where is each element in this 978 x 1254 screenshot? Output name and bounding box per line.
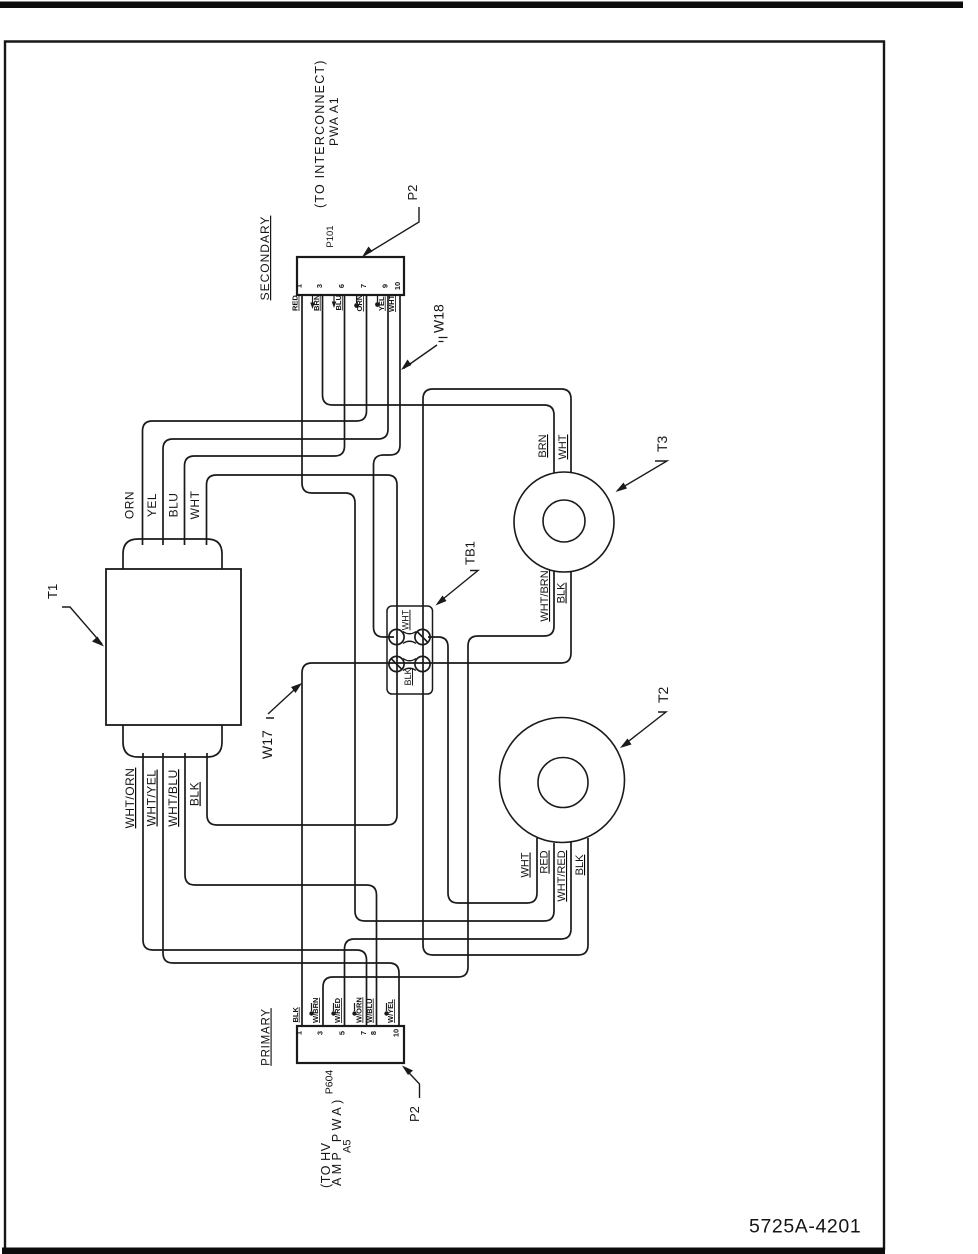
svg-text:BLK: BLK xyxy=(188,782,202,806)
svg-text:W/RED: W/RED xyxy=(333,997,342,1023)
svg-text:7: 7 xyxy=(359,1031,368,1035)
transformer T1 body xyxy=(106,569,241,725)
wire T1 WHT/YEL to P604-10 xyxy=(163,753,399,1026)
TB1 screw terminals xyxy=(389,629,430,671)
svg-text:(TO INTERCONNECT): (TO INTERCONNECT) xyxy=(313,59,327,208)
svg-text:ORN: ORN xyxy=(123,491,137,519)
svg-text:BLK: BLK xyxy=(556,582,568,603)
svg-text:RED: RED xyxy=(539,850,551,873)
svg-text:5725A-4201: 5725A-4201 xyxy=(749,1216,861,1238)
svg-text:BLK: BLK xyxy=(403,668,413,685)
TB1 screw labels xyxy=(401,609,414,685)
svg-text:W/BRN: W/BRN xyxy=(311,998,320,1023)
svg-text:T3: T3 xyxy=(654,435,670,452)
toroid T3 xyxy=(514,472,614,572)
svg-text:A5: A5 xyxy=(342,1140,354,1153)
connector P604 body (primary) xyxy=(297,1026,404,1063)
svg-text:6: 6 xyxy=(337,284,346,288)
svg-text:T1: T1 xyxy=(45,584,60,599)
wire P101-7 ORN to T1 ORN xyxy=(143,295,367,545)
svg-text:WHT/BRN: WHT/BRN xyxy=(539,570,551,621)
svg-text:3: 3 xyxy=(315,284,324,288)
wire P101-9 YEL to T1 YEL xyxy=(163,295,388,545)
P101 splice dot pin7 xyxy=(356,296,358,303)
P101 splice dot pin9 xyxy=(377,296,379,302)
svg-text:TB1: TB1 xyxy=(463,541,478,565)
svg-text:10: 10 xyxy=(392,1029,401,1037)
svg-text:3: 3 xyxy=(316,1031,325,1035)
svg-text:BLK: BLK xyxy=(291,1007,300,1023)
svg-text:WHT/BLU: WHT/BLU xyxy=(166,769,180,827)
svg-text:PRIMARY: PRIMARY xyxy=(261,1008,273,1066)
wire T2 WHT/RED to P604-5 xyxy=(345,842,572,1026)
T1 top lead labels xyxy=(123,490,203,519)
wire T1 WHT through TB1 left screws to T1 BLK xyxy=(207,475,398,825)
svg-text:10: 10 xyxy=(393,282,402,290)
wire P101-1 RED to T2 RED xyxy=(302,295,554,921)
svg-text:9: 9 xyxy=(381,284,390,288)
P604 pin numbers xyxy=(295,1029,401,1037)
svg-text:P2: P2 xyxy=(405,185,420,201)
P604 splice dot pin7 xyxy=(354,1003,356,1011)
T2 lead labels xyxy=(520,850,587,901)
wire T3 BLK through TB1 lower screws, W17 run to P604-1 xyxy=(302,570,571,1026)
svg-text:P101: P101 xyxy=(325,225,336,247)
svg-text:SECONDARY: SECONDARY xyxy=(258,216,272,301)
connector P101 body (secondary) xyxy=(297,257,404,295)
terminal block TB1 body xyxy=(387,606,433,694)
wire T3 WHT/BRN to P604-3 xyxy=(323,570,554,1026)
wire P101-10 WHT to TB1 upper-left screw xyxy=(374,295,401,637)
svg-text:BLU: BLU xyxy=(167,493,181,518)
TB1 jumper bone bottom pair xyxy=(403,659,416,671)
P101 pin numbers xyxy=(295,282,402,290)
svg-text:8: 8 xyxy=(369,1031,378,1035)
svg-text:W17: W17 xyxy=(259,730,275,759)
P101 splice arrow pin6 xyxy=(333,296,335,303)
svg-text:WHT/RED: WHT/RED xyxy=(556,850,568,901)
wire P101-6 BLU to T1 BLU xyxy=(185,295,345,545)
svg-text:1: 1 xyxy=(295,1031,304,1035)
svg-text:7: 7 xyxy=(359,284,368,288)
svg-text:5: 5 xyxy=(338,1031,347,1035)
bottom edge bar xyxy=(2,1248,885,1254)
TB1 jumper bone top pair xyxy=(403,632,416,644)
svg-text:WHT/YEL: WHT/YEL xyxy=(145,770,159,827)
svg-text:W/ORN: W/ORN xyxy=(355,997,364,1023)
T3 lead labels xyxy=(537,434,569,621)
P604 wire colour labels xyxy=(291,997,395,1023)
svg-text:T2: T2 xyxy=(655,686,671,703)
svg-text:PWA A1: PWA A1 xyxy=(327,96,341,146)
svg-text:W/YEL: W/YEL xyxy=(386,999,395,1023)
svg-text:RED: RED xyxy=(291,295,300,311)
top edge bar xyxy=(0,2,963,9)
wire P101-3 BRN to T3 BRN xyxy=(323,295,555,475)
svg-text:WHT/ORN: WHT/ORN xyxy=(123,768,137,829)
svg-text:W/BLU: W/BLU xyxy=(365,998,374,1023)
T1 bottom lead labels xyxy=(123,768,202,829)
transformer T1 top winding bump xyxy=(123,539,222,570)
svg-text:P2: P2 xyxy=(407,1106,422,1122)
P101 wire colour labels xyxy=(291,295,397,312)
wire T1 WHT/BLU to P604-8 xyxy=(185,753,377,1026)
svg-text:WHT: WHT xyxy=(387,295,396,312)
svg-text:YEL: YEL xyxy=(145,493,159,517)
svg-text:1: 1 xyxy=(295,284,304,288)
svg-text:BLK: BLK xyxy=(574,854,586,875)
P101 splice arrow pin3 xyxy=(312,296,314,304)
svg-text:W18: W18 xyxy=(431,304,447,333)
svg-text:P604: P604 xyxy=(324,1070,336,1095)
svg-text:WHT: WHT xyxy=(557,434,569,459)
toroid T2 xyxy=(500,718,625,843)
svg-text:WHT: WHT xyxy=(520,852,532,877)
svg-text:WHT: WHT xyxy=(188,490,202,519)
svg-text:BRN: BRN xyxy=(537,434,549,457)
wire TB1 upper-right screw to T2 WHT xyxy=(428,637,537,903)
svg-text:WHT: WHT xyxy=(401,609,411,630)
wire T3 WHT through TB1 right screws to T2 BLK xyxy=(423,389,588,955)
wire T1 WHT/ORN to P604-7 xyxy=(143,753,367,1026)
P604 splice dot pin3 xyxy=(311,1003,313,1011)
P604 splice dot pin10 xyxy=(386,1003,388,1011)
transformer T1 bottom winding bump xyxy=(123,724,222,757)
P604 splice dot pin5 xyxy=(333,1003,335,1011)
